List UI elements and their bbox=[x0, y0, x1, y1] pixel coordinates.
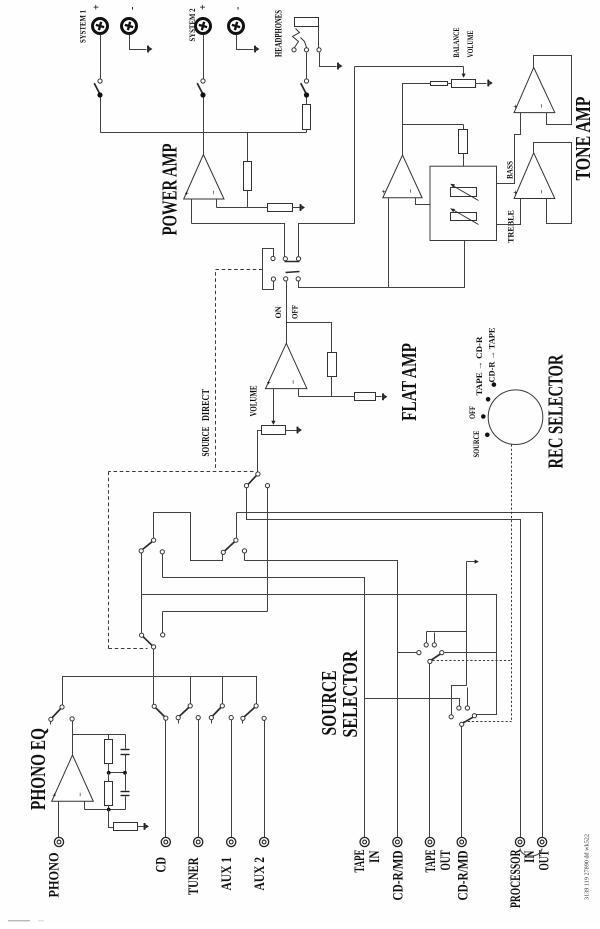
wire jack sleeve to ground bbox=[320, 53, 337, 67]
knob dot TAPE-CDR bbox=[486, 398, 490, 402]
ground (balance pot) bbox=[487, 80, 489, 87]
wire buffer + riser bbox=[388, 198, 390, 288]
wire SYSTEM1+ to switch bbox=[100, 35, 102, 79]
ground (volume pot) bbox=[297, 427, 299, 434]
rec changeover pivot bbox=[152, 645, 156, 649]
wire OFF contact to tone path bbox=[299, 241, 465, 288]
svg-text:TREBLE: TREBLE bbox=[506, 210, 516, 243]
rec rotary CDR-OUT source contact bbox=[472, 714, 476, 718]
svg-text:−: − bbox=[209, 191, 218, 195]
headphone switch bbox=[304, 79, 308, 83]
speaker terminal SYSTEM1 + bbox=[93, 19, 108, 34]
op-amp U4 tone (bass) bbox=[514, 67, 555, 112]
potentiometer BALANCE bbox=[452, 80, 476, 88]
svg-text:SELECTOR: SELECTOR bbox=[338, 650, 362, 738]
ground (phono eq) bbox=[144, 823, 146, 830]
svg-text:+: + bbox=[198, 4, 209, 10]
wire riser AUX1 contact bbox=[222, 677, 224, 704]
wire volume wiper arrow bbox=[273, 389, 275, 422]
svg-text:OFF: OFF bbox=[468, 406, 477, 419]
wire SYSTEM1- down bbox=[130, 35, 147, 50]
treble pot arrow bbox=[453, 210, 479, 225]
rec changeover contact (from selector) bbox=[140, 633, 144, 637]
wire output to feedback resistor bbox=[287, 323, 332, 353]
wire gain resistor to ground bbox=[293, 207, 300, 209]
wire to eq ground resistor bbox=[109, 810, 114, 828]
resistor (headphone series) bbox=[303, 105, 311, 130]
wire speaker output bus bbox=[101, 132, 307, 134]
wire R3 to ground bbox=[138, 826, 144, 828]
wire eq - riser bbox=[84, 802, 86, 810]
dashed link rec pivot 1 bbox=[433, 660, 512, 662]
wire cdr-in line L4 bbox=[245, 561, 398, 838]
contact (bracket upper) bbox=[271, 256, 275, 260]
rec rotary CDR-OUT lever bbox=[463, 717, 473, 723]
jack CD bbox=[161, 837, 170, 846]
wire R2 bottom bbox=[108, 806, 110, 810]
changeover S-M lever pivot bbox=[221, 550, 225, 554]
wire tape-in line L5 bbox=[163, 578, 365, 838]
op-amp U1 POWER AMP bbox=[184, 155, 224, 200]
wire volume pot left down bbox=[258, 431, 262, 472]
wire buffer - riser bbox=[416, 198, 431, 205]
jack PROCESSOR OUT bbox=[538, 837, 547, 846]
svg-text:+: + bbox=[92, 4, 103, 10]
svg-text:+: + bbox=[49, 793, 58, 797]
wire eq - node line bbox=[85, 809, 126, 811]
wire S-M contact B down bbox=[244, 554, 246, 561]
wire SYSTEM2+ to switch bbox=[203, 35, 205, 79]
wire rec bus L6 bbox=[142, 595, 497, 653]
bass pot arrow bbox=[453, 186, 479, 201]
input switch AUX1 bbox=[220, 704, 224, 708]
contact phono-eq output bbox=[70, 717, 74, 721]
speaker terminal SYSTEM2 + bbox=[196, 19, 211, 34]
junction dot mid left bbox=[107, 771, 110, 774]
contact pair upper (ON) bbox=[283, 257, 287, 261]
resistor (power amp gain) bbox=[268, 204, 293, 212]
svg-text:SOURCE: SOURCE bbox=[472, 431, 481, 458]
rec changeover contact (bypass) bbox=[161, 633, 165, 637]
wire bus to feedback resistor bbox=[247, 133, 249, 162]
svg-text:SOURCE: SOURCE bbox=[201, 426, 212, 456]
wire flat amp - riser bbox=[298, 389, 300, 397]
svg-text:PHONO EQ: PHONO EQ bbox=[26, 728, 50, 810]
capacitor C2 (phono eq) bbox=[121, 791, 130, 793]
wire balance pot to ground bbox=[476, 83, 487, 85]
resistor R3 (phono eq ground) bbox=[114, 823, 138, 831]
svg-text:CD: CD bbox=[154, 857, 170, 873]
svg-text:CD-R/MD: CD-R/MD bbox=[455, 850, 471, 900]
wire eq feedback top bbox=[73, 734, 126, 736]
wire buffer out to resistor bbox=[403, 84, 431, 125]
wire - node bbox=[299, 396, 355, 398]
wire CD-R OUT jack line bbox=[461, 727, 463, 838]
source direct switch lever bbox=[248, 476, 256, 485]
contact AUX2 pivot bbox=[262, 716, 266, 720]
wire feedback resistor down bbox=[247, 191, 249, 208]
wire flat amp output bbox=[286, 323, 288, 344]
contact AUX1 pivot bbox=[229, 716, 233, 720]
wire C2 drop bbox=[125, 773, 127, 791]
speaker switch SW2 bbox=[201, 79, 205, 83]
wire contact B to bypass line bbox=[267, 488, 269, 612]
arrow rec out bbox=[467, 561, 476, 563]
tone ON/OFF switch bracket bbox=[263, 249, 274, 290]
wire tape-in to rec stub bbox=[365, 699, 460, 706]
source direct contact A bbox=[244, 484, 248, 488]
wire throws to dub bus bbox=[427, 631, 467, 633]
svg-text:+: + bbox=[182, 191, 191, 195]
op-amp U3 buffer bbox=[383, 155, 422, 198]
svg-text:−: − bbox=[75, 793, 84, 797]
jack TAPE IN bbox=[360, 837, 369, 846]
wire throw risers bbox=[426, 632, 428, 643]
svg-text:TAPE: TAPE bbox=[423, 850, 439, 873]
wire S-L pivot down bbox=[141, 554, 143, 634]
changeover S-M top contact bbox=[234, 538, 238, 542]
svg-text:IN: IN bbox=[367, 850, 383, 863]
op-amp U6 PHONO EQ bbox=[52, 755, 94, 801]
svg-text:POWER AMP: POWER AMP bbox=[158, 143, 182, 235]
ground (system 2) bbox=[254, 46, 256, 53]
svg-text:TUNER: TUNER bbox=[186, 857, 202, 895]
knob dot SOURCE bbox=[486, 433, 490, 437]
changeover S-M contact B bbox=[242, 549, 246, 553]
wire S-M top to L2 bbox=[236, 513, 238, 539]
wire power amp - riser bbox=[216, 200, 218, 208]
svg-text:+: + bbox=[510, 190, 519, 194]
svg-text:3139 119 27890 dd wk522: 3139 119 27890 dd wk522 bbox=[584, 834, 591, 900]
wire pivot to input bus bbox=[153, 650, 155, 705]
REC SELECTOR knob bbox=[488, 390, 543, 445]
knob dot CDR-TAPE bbox=[492, 383, 496, 387]
wire flat amp out to ON contact bbox=[286, 282, 288, 323]
input switch TUNER bbox=[188, 704, 192, 708]
svg-text:CD-R/MD: CD-R/MD bbox=[390, 850, 406, 900]
wire buffer output riser bbox=[402, 125, 404, 156]
op-amp U2 FLAT AMP bbox=[266, 343, 307, 388]
wire dub bus (arrow) bbox=[466, 562, 468, 686]
changeover S-L top contact bbox=[152, 538, 156, 542]
svg-text:AUX 2: AUX 2 bbox=[252, 857, 268, 891]
resistor (flat amp gain) bbox=[355, 393, 376, 401]
rec rotary TAPE-OUT contact CD-R bbox=[417, 651, 421, 655]
switch bridge lower open bbox=[286, 272, 300, 273]
wire switch to resistor bbox=[306, 98, 308, 105]
resistor R2 (phono eq) bbox=[105, 782, 113, 806]
input switch CD bbox=[152, 704, 156, 708]
jack TUNER bbox=[194, 837, 203, 846]
changeover S-L lever bbox=[143, 542, 152, 550]
wire TAPE OUT jack line bbox=[429, 664, 431, 838]
rec rotary CDR-OUT throw contacts bbox=[457, 706, 461, 710]
resistor (power amp feedback) bbox=[244, 162, 252, 191]
wire TREBLE tap bbox=[497, 199, 521, 225]
processor jumper arc bbox=[520, 849, 542, 857]
scan speck bbox=[8, 920, 30, 921]
wire balance feed bbox=[355, 66, 464, 68]
svg-text:-: - bbox=[127, 7, 138, 10]
wire S-L contact B to tape line bbox=[162, 554, 164, 578]
capacitor C1 (phono eq) bbox=[121, 749, 130, 751]
wire link L1 bbox=[154, 513, 223, 561]
svg-text:−: − bbox=[406, 189, 415, 193]
headphone jack spring contact bbox=[293, 29, 300, 48]
rec rotary CDR-OUT contact dub bbox=[449, 715, 453, 719]
junction dot - node bbox=[107, 808, 110, 811]
wire + input line left segment bbox=[192, 224, 285, 257]
wire input bus L8 bbox=[63, 677, 257, 705]
svg-text:REC SELECTOR: REC SELECTOR bbox=[544, 354, 568, 469]
wire C1 down bbox=[125, 755, 127, 773]
speaker terminal SYSTEM2 - bbox=[229, 19, 244, 34]
headphone jack contacts bbox=[292, 48, 296, 52]
wire to tone feedback resistor bbox=[463, 125, 465, 130]
svg-text:TONE AMP: TONE AMP bbox=[571, 96, 595, 180]
svg-text:CD-R → TAPE: CD-R → TAPE bbox=[488, 327, 497, 382]
contact (bracket lower) bbox=[271, 277, 275, 281]
dashed link rec selector knob bbox=[511, 445, 513, 722]
wire resistor to pot bbox=[448, 83, 452, 85]
wire feedback resistor down bbox=[331, 377, 333, 397]
tone control box bbox=[430, 166, 497, 240]
svg-text:-: - bbox=[233, 7, 244, 10]
wire contact A to processor line bbox=[247, 488, 521, 838]
wire jack to headphone switch bbox=[306, 53, 308, 79]
wire + input line right segment bbox=[299, 67, 355, 257]
svg-text:TAPE: TAPE bbox=[352, 850, 368, 873]
dashed mechanical link (source direct) bbox=[216, 270, 263, 471]
jack TAPE OUT bbox=[425, 837, 434, 846]
wire dub bus to cdr-out rotary bbox=[452, 686, 467, 715]
svg-text:OFF: OFF bbox=[290, 305, 300, 319]
headphone jack body bbox=[295, 18, 319, 27]
svg-text:PHONO: PHONO bbox=[46, 853, 62, 898]
jack CD-R/MD OUT bbox=[457, 837, 466, 846]
svg-text:BASS: BASS bbox=[505, 161, 515, 179]
svg-text:−: − bbox=[537, 190, 546, 194]
wire AUX1 to jack bbox=[231, 720, 233, 838]
input switch AUX2 bbox=[254, 704, 258, 708]
svg-text:−: − bbox=[289, 380, 298, 384]
wire phono + riser to jack bbox=[58, 802, 60, 838]
jack PHONO bbox=[54, 837, 63, 846]
wire BASS tap bbox=[497, 113, 521, 184]
svg-text:SYSTEM 1: SYSTEM 1 bbox=[78, 10, 88, 43]
changeover S-M lever bbox=[225, 542, 234, 551]
jack CD-R/MD IN bbox=[393, 837, 402, 846]
wire rec bus to cdr-out contact bbox=[475, 653, 497, 715]
knob dot OFF bbox=[482, 415, 486, 419]
wire AUX2 to jack bbox=[264, 721, 266, 838]
wire volume pot right to ground bbox=[286, 430, 297, 432]
wire throw riser bbox=[467, 688, 469, 706]
wire eq output node bbox=[72, 735, 74, 756]
op-amp U5 tone (treble) bbox=[514, 153, 555, 199]
wire feedback resistor to tone box bbox=[463, 154, 465, 167]
wire R1 drop bbox=[108, 735, 110, 740]
svg-text:+: + bbox=[510, 104, 519, 108]
junction dot mid right bbox=[124, 771, 127, 774]
svg-text:BALANCE: BALANCE bbox=[451, 27, 461, 57]
resistor (tone feedback) bbox=[459, 130, 468, 154]
potentiometer BASS (in box) bbox=[451, 188, 477, 197]
svg-text:VOLUME: VOLUME bbox=[249, 386, 259, 417]
ground (flat amp gain) bbox=[382, 393, 384, 400]
svg-text:DIRECT: DIRECT bbox=[201, 389, 212, 421]
potentiometer VOLUME bbox=[262, 426, 286, 435]
wire output node to tone feedback bbox=[403, 124, 464, 126]
wire cdr-in to rec stub bbox=[398, 652, 417, 654]
svg-text:VOLUME: VOLUME bbox=[465, 30, 475, 57]
wire processor-out line L2 bbox=[237, 513, 543, 838]
wire R1 down bbox=[108, 764, 110, 773]
contact pair lower (OFF) bbox=[284, 277, 288, 281]
source direct switch pivot bbox=[256, 472, 260, 476]
changeover S-L pivot bbox=[139, 549, 143, 553]
rec rotary TAPE-OUT lever bbox=[432, 654, 441, 660]
wire C1 drop bbox=[125, 735, 127, 749]
source direct contact B bbox=[265, 484, 269, 488]
wire CD to jack bbox=[165, 721, 167, 838]
speaker switch SW1 bbox=[98, 79, 102, 83]
rec rotary TAPE-OUT throw contacts bbox=[424, 643, 428, 647]
wire power amp + riser bbox=[191, 200, 193, 224]
wire tone A feedback loop bbox=[534, 56, 572, 125]
changeover S-L contact B bbox=[160, 550, 164, 554]
dashed link rec pivot 2 bbox=[464, 721, 512, 723]
headphone jack tip line bbox=[318, 27, 320, 48]
wire to gain resistor bbox=[248, 207, 268, 209]
rec changeover lever bbox=[143, 637, 152, 646]
ground (system 1) bbox=[147, 46, 149, 53]
wire eq output riser bbox=[72, 722, 74, 735]
resistor (balance series) bbox=[431, 82, 448, 86]
headphone jack mid contact bbox=[301, 38, 307, 48]
svg-text:HEADPHONES: HEADPHONES bbox=[274, 10, 284, 57]
input switch PHONO bbox=[60, 705, 64, 709]
svg-text:OUT: OUT bbox=[438, 850, 454, 871]
rec rotary TAPE-OUT source contact bbox=[440, 651, 444, 655]
contact TUNER pivot bbox=[196, 716, 200, 720]
jack AUX2 bbox=[260, 837, 269, 846]
wire rec bus to tape-out contact bbox=[445, 652, 497, 654]
wire bypass contact riser bbox=[162, 612, 164, 633]
potentiometer TREBLE (in box) bbox=[451, 213, 477, 221]
wire gain resistor to ground bbox=[376, 396, 382, 398]
wire power amp output bbox=[203, 98, 205, 155]
rec rotary TAPE-OUT pivot bbox=[428, 659, 432, 663]
wire bypass line L7 bbox=[163, 611, 268, 613]
ground (headphones) bbox=[337, 63, 339, 70]
wire SW1 to output bus bbox=[100, 98, 102, 133]
resistor R1 (phono eq) bbox=[105, 740, 113, 764]
svg-text:TAPE → CD-R: TAPE → CD-R bbox=[475, 336, 484, 395]
wire - node to feedback bbox=[217, 207, 248, 209]
wire tone B feedback loop bbox=[534, 143, 572, 224]
resistor (flat amp feedback) bbox=[328, 353, 337, 377]
ground (power amp gain) bbox=[300, 204, 302, 211]
jack PROCESSOR IN bbox=[515, 837, 524, 846]
rec rotary CDR-OUT pivot bbox=[460, 722, 464, 726]
svg-text:−: − bbox=[537, 104, 546, 108]
wire riser TUNER contact bbox=[190, 677, 192, 704]
jack AUX1 bbox=[227, 837, 236, 846]
wire C2 down bbox=[125, 797, 127, 810]
svg-text:+: + bbox=[264, 380, 273, 384]
svg-text:AUX 1: AUX 1 bbox=[219, 857, 235, 891]
balance wiper arrow bbox=[463, 67, 465, 75]
wire resistor to bus bbox=[306, 130, 308, 133]
svg-text:ON: ON bbox=[273, 306, 283, 319]
wire R2 drop bbox=[108, 773, 110, 782]
switch bridge upper closed bbox=[285, 261, 300, 263]
wire mid node link bbox=[109, 772, 126, 774]
wire SYSTEM2- down bbox=[237, 35, 254, 50]
svg-text:FLAT AMP: FLAT AMP bbox=[397, 343, 421, 421]
svg-text:+: + bbox=[379, 189, 388, 193]
wire TUNER to jack bbox=[198, 720, 200, 838]
speaker terminal SYSTEM1 - bbox=[122, 19, 137, 34]
